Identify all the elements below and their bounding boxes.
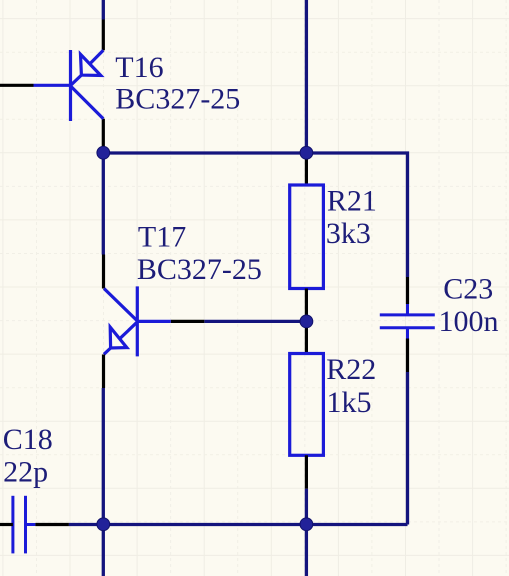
transistor T16	[34, 50, 104, 121]
svg-text:100n: 100n	[439, 305, 499, 338]
pin R22 top	[305, 321, 308, 353]
junction node at R22 bottom	[300, 518, 313, 531]
wire net N1 top-left vertical	[102, 0, 105, 20]
wire middle branch bottom vertical	[305, 489, 308, 576]
junction node at T16 collector	[97, 146, 110, 159]
pin C23 top	[406, 277, 409, 304]
svg-text:R22: R22	[326, 353, 376, 386]
pin R22 bottom	[305, 455, 308, 489]
pin R21 bottom	[305, 289, 308, 322]
capacitor C18	[13, 496, 36, 554]
wire middle branch top vertical	[305, 0, 308, 153]
pin C18 right	[35, 523, 69, 526]
pin T17 collector	[102, 255, 105, 289]
svg-text:R21: R21	[327, 185, 377, 218]
pin T16 base outer	[0, 84, 34, 87]
wire left branch lower vertical	[102, 388, 105, 525]
svg-text:22p: 22p	[3, 455, 48, 488]
capacitor C23	[380, 304, 435, 339]
svg-text:T16: T16	[115, 51, 163, 84]
pin T17 emitter	[102, 355, 105, 389]
svg-text:BC327-25: BC327-25	[137, 253, 262, 286]
pin T16 collector	[102, 119, 105, 153]
resistor R22	[290, 354, 324, 456]
wire bottom horizontal net	[69, 523, 408, 526]
pin C23 bottom	[406, 339, 409, 373]
junction node at R21 top	[300, 146, 313, 159]
svg-text:C18: C18	[3, 423, 53, 456]
junction node at R21/R22 divider	[300, 315, 313, 328]
svg-text:BC327-25: BC327-25	[115, 83, 240, 116]
svg-text:1k5: 1k5	[327, 386, 372, 419]
svg-text:C23: C23	[443, 272, 493, 305]
wire left branch middle vertical	[102, 153, 105, 255]
wire right branch lower vertical	[406, 372, 409, 525]
junction node at C18 / left branch	[97, 518, 110, 531]
transistor T17	[104, 286, 171, 356]
pin T16 emitter	[102, 20, 105, 51]
wire left branch below bottom net	[102, 525, 105, 576]
pin R21 top	[305, 153, 308, 185]
svg-text:3k3: 3k3	[326, 217, 371, 250]
pin T17 base outer	[171, 320, 205, 323]
pin C18 left	[0, 523, 13, 526]
resistor R21	[290, 185, 324, 289]
svg-text:T17: T17	[138, 221, 186, 254]
wire top horizontal net with corner to C23 branch	[103, 153, 407, 277]
wire middle horizontal net	[204, 320, 306, 323]
